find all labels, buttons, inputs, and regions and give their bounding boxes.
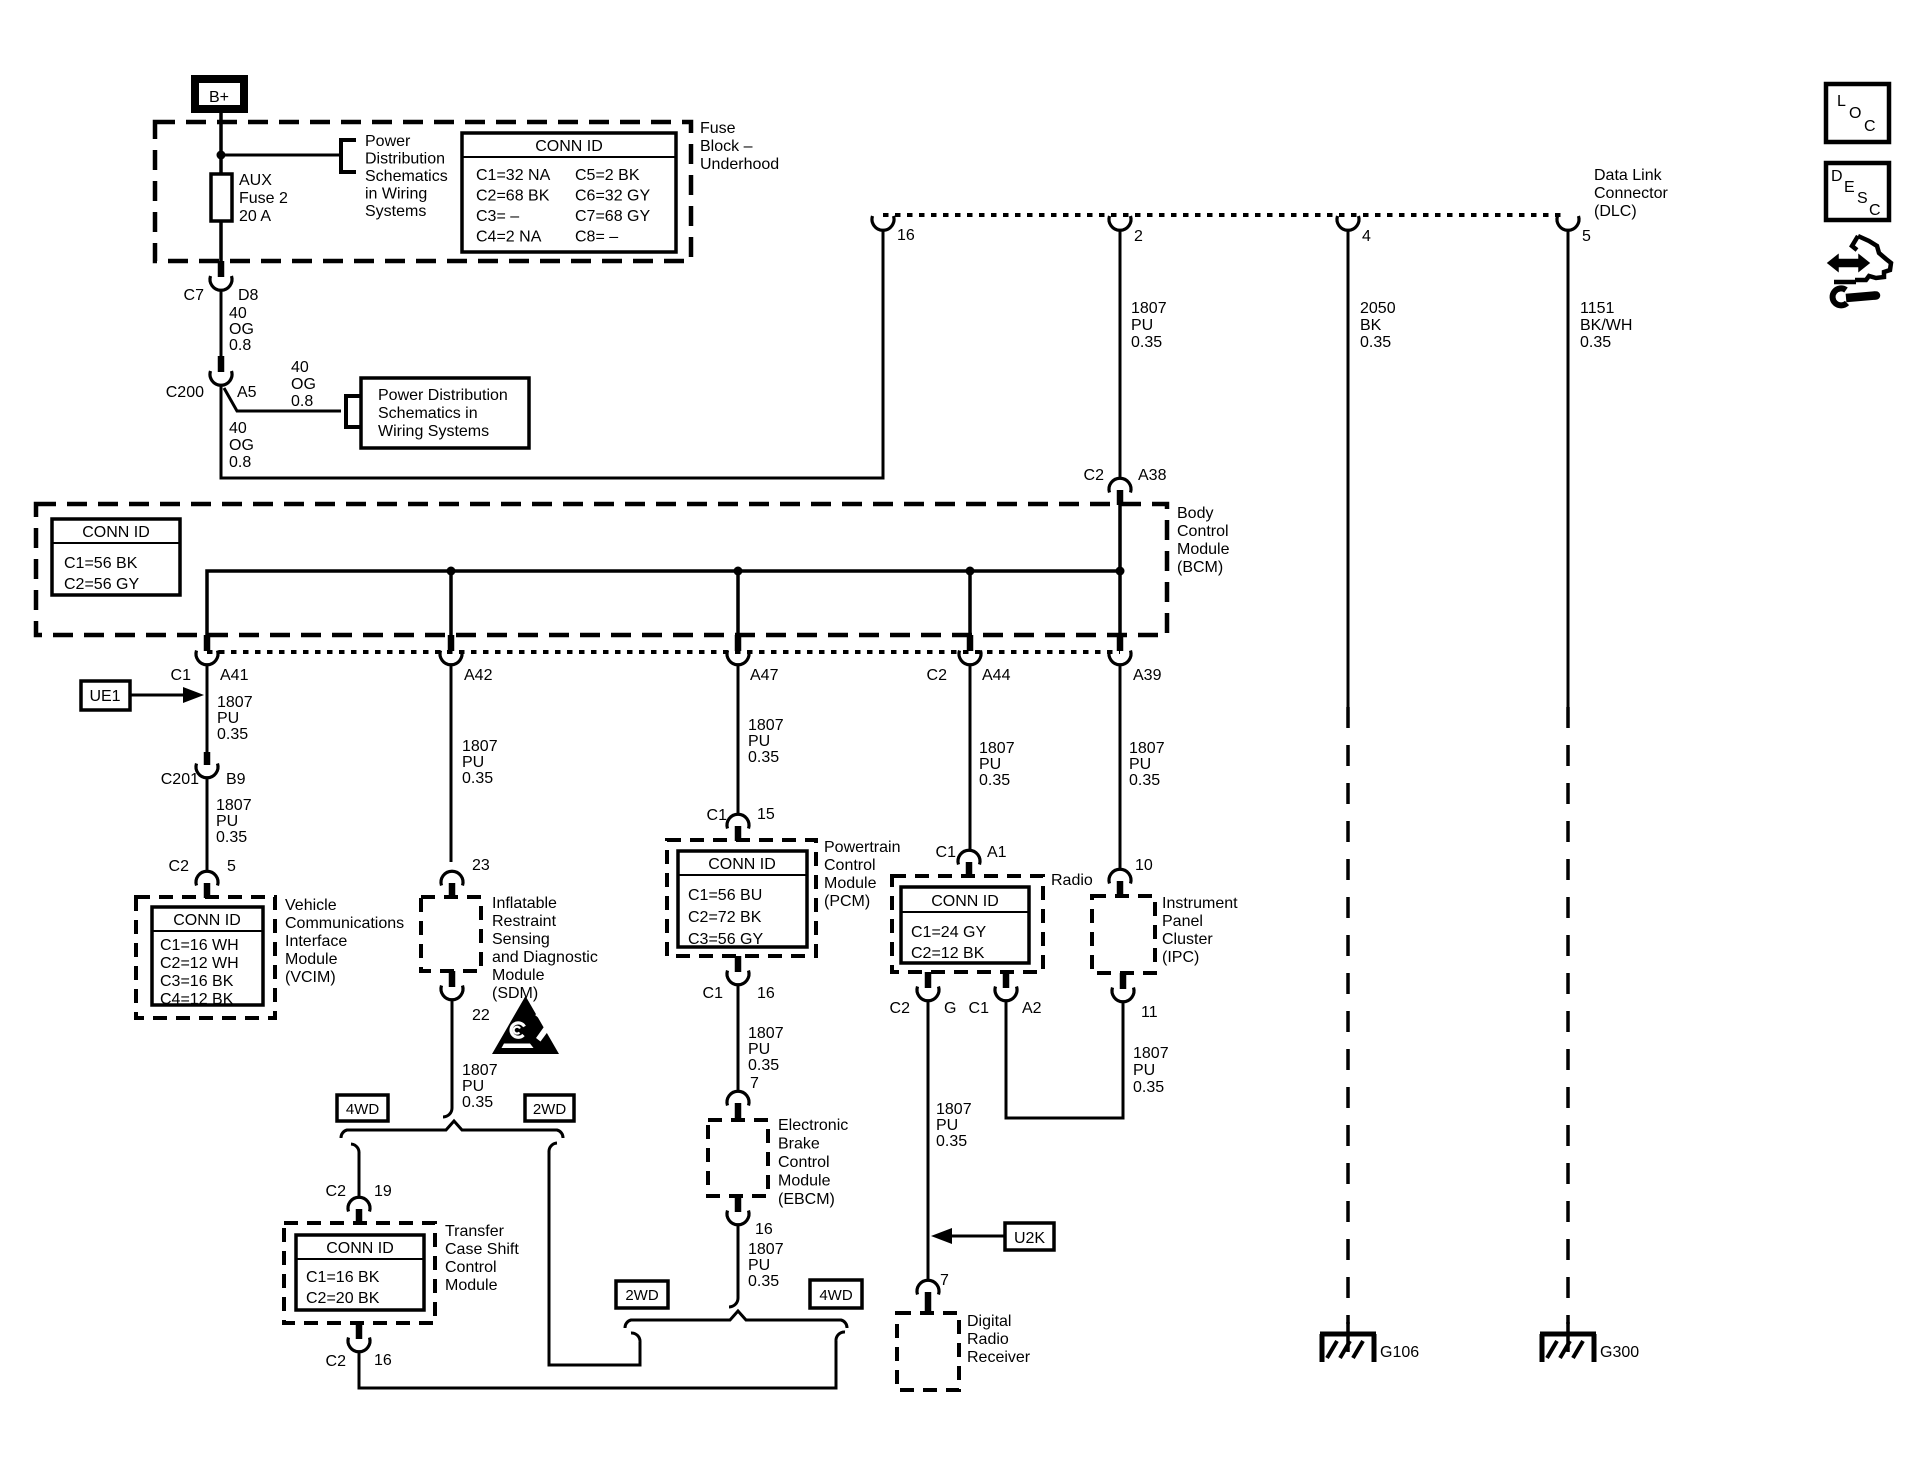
hook to 2WD branch bbox=[549, 1143, 557, 1152]
hook at second split 2WD end bbox=[631, 1333, 640, 1342]
svg-text:C1=16 WH: C1=16 WH bbox=[160, 937, 239, 954]
svg-text:C2: C2 bbox=[890, 1000, 911, 1017]
svg-text:D8: D8 bbox=[238, 287, 259, 304]
connector C2 pin A44 bbox=[927, 635, 1011, 684]
svg-text:CONN ID: CONN ID bbox=[82, 524, 150, 541]
node junction at fuse feed bbox=[217, 151, 226, 160]
svg-text:U2K: U2K bbox=[1014, 1230, 1045, 1247]
wire B+ to fuse bbox=[219, 113, 223, 174]
svg-text:4: 4 bbox=[1362, 228, 1371, 245]
wire pin 5 ground feed, circuit 1151 BK/WH 0.35 bbox=[1568, 230, 1632, 1324]
svg-text:19: 19 bbox=[374, 1183, 392, 1200]
svg-text:C1: C1 bbox=[707, 807, 728, 824]
svg-text:C2: C2 bbox=[927, 667, 948, 684]
connector C2 pin A38 into BCM bbox=[1084, 467, 1167, 505]
svg-text:A5: A5 bbox=[237, 384, 257, 401]
svg-text:C7: C7 bbox=[184, 287, 205, 304]
svg-text:O: O bbox=[1849, 105, 1861, 122]
connector C200 pin A5 bbox=[166, 356, 257, 401]
junction node A47 bbox=[734, 567, 743, 576]
wire PCM to EBCM, circuit 1807 PU 0.35 bbox=[738, 985, 784, 1091]
svg-text:C4=12 BK: C4=12 BK bbox=[160, 991, 234, 1008]
svg-text:C4=2 NA: C4=2 NA bbox=[476, 229, 542, 246]
wire A44 to Radio, circuit 1807 PU 0.35 bbox=[970, 664, 1015, 850]
svg-text:A42: A42 bbox=[464, 667, 493, 684]
svg-text:C2=20 BK: C2=20 BK bbox=[306, 1290, 380, 1307]
off-page reference bracket 2 bbox=[346, 396, 361, 427]
connector pin 7 into digital radio receiver bbox=[917, 1272, 949, 1313]
wire Radio G to digital radio receiver, circuit 1807 PU 0.35 bbox=[928, 1001, 972, 1280]
svg-text:2: 2 bbox=[1134, 228, 1143, 245]
CONN ID table PCM bbox=[678, 851, 807, 948]
svg-text:22: 22 bbox=[472, 1007, 490, 1024]
connector pin A39 bbox=[1109, 635, 1162, 684]
Powertrain Control Module dashed box bbox=[667, 840, 816, 956]
svg-text:G300: G300 bbox=[1600, 1344, 1639, 1361]
svg-text:G: G bbox=[944, 1000, 956, 1017]
svg-text:CONN ID: CONN ID bbox=[173, 912, 241, 929]
Transfer Case Shift Control Module dashed box bbox=[284, 1223, 435, 1323]
svg-text:C1=56 BU: C1=56 BU bbox=[688, 887, 762, 904]
svg-text:C: C bbox=[1864, 118, 1876, 135]
svg-text:2WD: 2WD bbox=[533, 1101, 567, 1118]
svg-text:S: S bbox=[1857, 190, 1868, 207]
wire C2 16 to 4WD end of second split bbox=[359, 1341, 836, 1388]
svg-text:C1=32 NA: C1=32 NA bbox=[476, 167, 551, 184]
svg-text:16: 16 bbox=[897, 227, 915, 244]
svg-text:C: C bbox=[1869, 202, 1881, 219]
junction node A42 bbox=[447, 567, 456, 576]
battery feed B+ terminal box bbox=[195, 79, 244, 109]
BCM internal bus wire bbox=[207, 505, 1120, 635]
svg-text:CONN ID: CONN ID bbox=[708, 856, 776, 873]
wire EBCM to 2WD/4WD split, circuit 1807 PU 0.35 bbox=[729, 1225, 784, 1307]
DLC connector pin 16 bbox=[872, 216, 915, 244]
connector C1 pin A41 bbox=[171, 635, 249, 684]
wire 22 to 4WD/2WD split, circuit 1807 PU 0.35 bbox=[443, 1000, 498, 1117]
svg-text:4WD: 4WD bbox=[346, 1101, 380, 1118]
svg-text:A47: A47 bbox=[750, 667, 779, 684]
svg-text:16: 16 bbox=[755, 1221, 773, 1238]
wire fuse to C7 bbox=[219, 221, 223, 261]
svg-text:C2=72 BK: C2=72 BK bbox=[688, 909, 762, 926]
wire to power distribution reference bbox=[221, 154, 340, 157]
wire A41 to C201, circuit 1807 PU 0.35 bbox=[207, 664, 253, 754]
wire 2WD jumper to second split bbox=[549, 1151, 640, 1365]
svg-text:C1: C1 bbox=[703, 985, 724, 1002]
LOC reference box bbox=[1826, 84, 1889, 142]
Body Control Module dashed box bbox=[36, 504, 1167, 635]
connector pin 7 into EBCM bbox=[727, 1075, 759, 1120]
svg-text:C2=12 WH: C2=12 WH bbox=[160, 955, 239, 972]
svg-text:C2: C2 bbox=[1084, 467, 1105, 484]
BCM bottom connector dotted line bbox=[207, 650, 1120, 654]
svg-text:B9: B9 bbox=[226, 771, 246, 788]
svg-text:A41: A41 bbox=[220, 667, 249, 684]
svg-text:C2=12 BK: C2=12 BK bbox=[911, 945, 985, 962]
option split brace 4WD/2WD bbox=[341, 1121, 563, 1138]
Power Distribution Schematics box bbox=[361, 378, 529, 448]
option split brace 2WD/4WD second bbox=[625, 1311, 847, 1328]
CONN ID table Radio bbox=[901, 887, 1029, 963]
DLC connector pin 2 bbox=[1109, 216, 1143, 245]
CONN ID table BCM bbox=[52, 519, 180, 595]
svg-text:A44: A44 bbox=[982, 667, 1011, 684]
SRS airbag warning triangle bbox=[492, 996, 559, 1054]
svg-text:Radio: Radio bbox=[1051, 872, 1093, 889]
svg-text:C7=68 GY: C7=68 GY bbox=[575, 208, 650, 225]
DLC dotted connector line bbox=[883, 213, 1566, 217]
connector C201 pin B9 bbox=[161, 752, 246, 788]
wire A47 to PCM, circuit 1807 PU 0.35 bbox=[738, 664, 784, 814]
svg-text:C1: C1 bbox=[969, 1000, 990, 1017]
connector C1 pin 16 below PCM bbox=[703, 956, 775, 1002]
wire pin 2 to A38, circuit 1807 PU 0.35 bbox=[1120, 230, 1167, 478]
svg-text:C201: C201 bbox=[161, 771, 199, 788]
hook to transfer case branch bbox=[351, 1144, 359, 1153]
connector pin 16 below EBCM bbox=[727, 1196, 773, 1238]
svg-text:C3= –: C3= – bbox=[476, 208, 519, 225]
svg-text:C5=2 BK: C5=2 BK bbox=[575, 167, 640, 184]
svg-text:A2: A2 bbox=[1022, 1000, 1042, 1017]
connector pin A47 bbox=[727, 635, 779, 684]
svg-text:C3=56 GY: C3=56 GY bbox=[688, 931, 763, 948]
svg-text:16: 16 bbox=[757, 985, 775, 1002]
connector C7 pin D8 bbox=[184, 261, 259, 304]
ground G300 bbox=[1540, 1322, 1639, 1362]
svg-text:C1: C1 bbox=[936, 844, 957, 861]
junction node A39 bbox=[1116, 567, 1125, 576]
connector pin A42 bbox=[440, 635, 493, 684]
svg-text:11: 11 bbox=[1141, 1004, 1158, 1021]
connector C2 pin 19 into transfer case module bbox=[326, 1183, 392, 1224]
svg-text:5: 5 bbox=[227, 858, 236, 875]
svg-text:CONN ID: CONN ID bbox=[535, 138, 603, 155]
svg-text:L: L bbox=[1837, 93, 1846, 110]
svg-text:A1: A1 bbox=[987, 844, 1007, 861]
wire C200 down to DLC pin 16, 40 OG 0.8 bbox=[221, 231, 883, 478]
svg-text:C6=32 GY: C6=32 GY bbox=[575, 188, 650, 205]
Vehicle Communications Interface Module dashed box bbox=[136, 897, 275, 1018]
connector C2 pin 5 into VCIM bbox=[169, 858, 236, 898]
connector pin 11 below IPC bbox=[1112, 973, 1158, 1021]
svg-text:C3=16 BK: C3=16 BK bbox=[160, 973, 234, 990]
UE1 reference box with arrow bbox=[81, 681, 204, 710]
connector C1 pin A1 into Radio bbox=[936, 844, 1007, 877]
Digital Radio Receiver dashed box bbox=[897, 1313, 959, 1390]
DLC connector pin 5 bbox=[1557, 216, 1591, 245]
Fuse Block Underhood dashed box bbox=[155, 122, 691, 261]
Inflatable Restraint SDM dashed box bbox=[421, 897, 481, 971]
2WD option box second bbox=[616, 1281, 668, 1308]
DLC connector pin 4 bbox=[1337, 216, 1371, 245]
svg-text:C1=56 BK: C1=56 BK bbox=[64, 555, 138, 572]
svg-text:G106: G106 bbox=[1380, 1344, 1419, 1361]
connector pin 10 into IPC bbox=[1109, 857, 1153, 897]
svg-text:15: 15 bbox=[757, 806, 775, 823]
U2K reference box with arrow bbox=[931, 1223, 1054, 1250]
connector pin 22 below SDM bbox=[441, 971, 490, 1024]
wire brace to C2 19 bbox=[358, 1152, 361, 1197]
DESC reference box bbox=[1826, 163, 1889, 220]
svg-text:C2=68 BK: C2=68 BK bbox=[476, 188, 550, 205]
wire branch A5 to power distribution, 40 OG 0.8 bbox=[224, 359, 341, 411]
svg-text:23: 23 bbox=[472, 857, 490, 874]
svg-text:A38: A38 bbox=[1138, 467, 1167, 484]
connector C2 pin G below Radio bbox=[890, 972, 957, 1017]
ground G106 bbox=[1320, 1322, 1419, 1362]
Radio dashed box bbox=[892, 876, 1043, 972]
4WD option box second bbox=[810, 1280, 862, 1308]
svg-text:C1: C1 bbox=[171, 667, 192, 684]
svg-text:C2=56 GY: C2=56 GY bbox=[64, 576, 139, 593]
4WD option box bbox=[337, 1095, 388, 1121]
connector pin 23 into SDM bbox=[441, 857, 490, 898]
svg-text:CONN ID: CONN ID bbox=[326, 1240, 394, 1257]
svg-text:C200: C200 bbox=[166, 384, 204, 401]
wire C201 to VCIM, circuit 1807 PU 0.35 bbox=[207, 778, 252, 871]
svg-text:CONN ID: CONN ID bbox=[931, 893, 999, 910]
junction node A44 bbox=[966, 567, 975, 576]
svg-text:7: 7 bbox=[940, 1272, 949, 1289]
svg-text:16: 16 bbox=[374, 1352, 392, 1369]
2WD option box bbox=[525, 1095, 574, 1121]
wire C7 to C200, circuit 40 OG 0.8 bbox=[221, 290, 254, 356]
connector C1 pin 15 into PCM bbox=[707, 806, 775, 841]
wire pin 4 ground feed, circuit 2050 BK 0.35 bbox=[1348, 230, 1396, 1324]
svg-text:5: 5 bbox=[1582, 228, 1591, 245]
svg-text:C2: C2 bbox=[169, 858, 190, 875]
wire A2 to IPC 11 bbox=[1006, 1001, 1123, 1118]
svg-text:UE1: UE1 bbox=[89, 688, 120, 705]
wire A39 to IPC, circuit 1807 PU 0.35 bbox=[1120, 664, 1165, 869]
svg-text:D: D bbox=[1831, 168, 1843, 185]
svg-text:A39: A39 bbox=[1133, 667, 1162, 684]
schematic navigation icon bbox=[1828, 236, 1891, 282]
svg-text:2WD: 2WD bbox=[625, 1287, 659, 1304]
CONN ID table VCIM bbox=[152, 907, 263, 1008]
CONN ID table TCSCM bbox=[296, 1235, 424, 1310]
svg-text:C8= –: C8= – bbox=[575, 229, 618, 246]
connector C2 pin 16 below transfer case module bbox=[326, 1323, 392, 1370]
svg-text:C2: C2 bbox=[326, 1353, 347, 1370]
Electronic Brake Control Module dashed box bbox=[708, 1120, 768, 1196]
connector C1 pin A2 below Radio bbox=[969, 972, 1042, 1017]
off-page reference bracket bbox=[341, 140, 356, 172]
svg-text:E: E bbox=[1844, 179, 1855, 196]
wrench icon bbox=[1833, 288, 1876, 305]
svg-text:B+: B+ bbox=[209, 89, 229, 106]
svg-text:C1=16 BK: C1=16 BK bbox=[306, 1269, 380, 1286]
svg-text:4WD: 4WD bbox=[819, 1287, 853, 1304]
hook at second split 4WD end bbox=[836, 1332, 845, 1341]
wire A42 to SDM, circuit 1807 PU 0.35 bbox=[451, 664, 498, 862]
svg-text:C2: C2 bbox=[326, 1183, 347, 1200]
svg-text:7: 7 bbox=[750, 1075, 759, 1092]
svg-text:C1=24 GY: C1=24 GY bbox=[911, 924, 986, 941]
Instrument Panel Cluster dashed box bbox=[1092, 896, 1155, 973]
fuse AUX Fuse 2 20 A bbox=[211, 172, 288, 225]
CONN ID table Fuse Block bbox=[462, 133, 676, 252]
svg-text:10: 10 bbox=[1135, 857, 1153, 874]
